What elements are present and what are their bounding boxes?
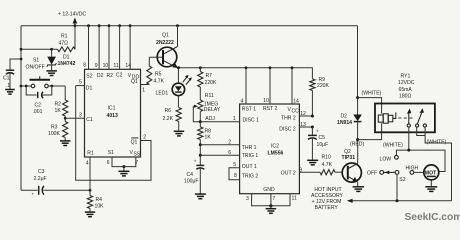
svg-text:CC: CC bbox=[292, 108, 300, 114]
ground (D1) bbox=[46, 71, 57, 76]
resistor R9 220K bbox=[310, 68, 330, 116]
svg-text:1N4742: 1N4742 bbox=[58, 61, 76, 67]
svg-text:C5: C5 bbox=[319, 135, 326, 141]
svg-text:THR 1: THR 1 bbox=[242, 145, 257, 151]
resistor R3 100K bbox=[48, 118, 68, 140]
svg-text:3: 3 bbox=[79, 112, 82, 118]
svg-text:HOT INPUT: HOT INPUT bbox=[314, 187, 341, 193]
svg-text:(WHITE): (WHITE) bbox=[383, 142, 403, 148]
wire: top +V rail bbox=[21, 25, 358, 27]
svg-text:R2: R2 bbox=[107, 73, 114, 79]
switch S2 LOW terminal bbox=[395, 155, 399, 159]
svg-text:47Ω: 47Ω bbox=[59, 41, 69, 47]
wires: IC1 top pin stubs 8,9,10,11,14 to +V rail bbox=[88, 26, 90, 70]
svg-text:Q1: Q1 bbox=[131, 79, 138, 85]
IC U2: IC2 LM556 timer box bbox=[240, 104, 300, 194]
relay linkage dashes bbox=[398, 117, 412, 119]
ground (IC2) bbox=[266, 209, 277, 214]
svg-text:D1: D1 bbox=[86, 85, 93, 91]
wire: OUT2 pin 9 bbox=[299, 171, 320, 173]
wire: IC1 pin 4 reset to C3/R4 node bbox=[89, 157, 91, 190]
IC2 left pin number labels bbox=[228, 116, 237, 179]
svg-text:LOW: LOW bbox=[380, 156, 392, 162]
svg-text:C2: C2 bbox=[116, 73, 123, 79]
svg-text:5: 5 bbox=[79, 80, 82, 86]
svg-text:6: 6 bbox=[107, 160, 110, 166]
wire: node to IC2 pin 6 TRIG1 bbox=[199, 145, 201, 156]
svg-text:OUT 1: OUT 1 bbox=[242, 164, 257, 170]
svg-text:SS: SS bbox=[134, 152, 141, 158]
svg-text:5: 5 bbox=[233, 162, 236, 168]
svg-text:(RED): (RED) bbox=[350, 142, 364, 148]
wire: battery hot rail with arrow bbox=[350, 200, 452, 202]
svg-text:TRIG 2: TRIG 2 bbox=[242, 173, 259, 179]
svg-text:GND: GND bbox=[263, 187, 275, 193]
svg-text:4.7K: 4.7K bbox=[154, 78, 165, 84]
wire: relay pole pin to LOW/motor node bbox=[408, 127, 410, 150]
resistor R8 1K bbox=[198, 122, 212, 145]
node label: HOT INPUT ACCESSORY +12V FROM BATTERY bbox=[311, 187, 343, 211]
svg-text:11: 11 bbox=[292, 195, 297, 201]
capacitor C2 .001 bbox=[25, 85, 28, 88]
wire: +V drop to D2 (WHITE) bbox=[357, 26, 359, 98]
switch S1 ON/OFF pushbutton bbox=[20, 85, 23, 88]
ground (C5) bbox=[307, 160, 318, 165]
svg-text:THR 2: THR 2 bbox=[281, 116, 296, 122]
svg-text:+ 12-14VDC: + 12-14VDC bbox=[58, 12, 86, 18]
svg-text:2: 2 bbox=[143, 135, 146, 141]
svg-text:OFF: OFF bbox=[367, 171, 377, 177]
svg-text:BATTERY: BATTERY bbox=[315, 205, 339, 211]
svg-text:Q1: Q1 bbox=[131, 139, 138, 145]
svg-text:S1: S1 bbox=[108, 150, 114, 156]
svg-text:1N914: 1N914 bbox=[337, 120, 352, 126]
switch S2 pole bbox=[395, 171, 399, 175]
svg-text:+: + bbox=[32, 192, 35, 197]
wire: Q1 emitter rail to R9 bbox=[178, 67, 311, 69]
svg-text:ACCESSORY: ACCESSORY bbox=[311, 193, 343, 199]
wire: R1 row bbox=[21, 26, 75, 50]
svg-text:4.7K: 4.7K bbox=[322, 162, 333, 168]
svg-text:1K: 1K bbox=[55, 108, 62, 114]
svg-text:(WHITE): (WHITE) bbox=[362, 91, 382, 97]
svg-text:ON/OFF: ON/OFF bbox=[26, 65, 45, 71]
svg-text:65mA: 65mA bbox=[399, 87, 413, 93]
capacitor C3 2.2uF bbox=[21, 169, 90, 196]
ground (motor) bbox=[425, 187, 437, 192]
IC1 internal labels bottom bbox=[87, 150, 141, 158]
wire: IC2 OUT1 pin5 to TRIG2 pin8 loop bbox=[229, 168, 240, 180]
svg-text:2.2K: 2.2K bbox=[163, 116, 174, 122]
wire: IC1 pin 1 Q1 output to R5 bbox=[141, 84, 150, 86]
svg-text:220K: 220K bbox=[317, 83, 329, 89]
svg-text:RST 2: RST 2 bbox=[263, 106, 278, 112]
ground (C4) bbox=[195, 194, 206, 199]
svg-text:OUT 2: OUT 2 bbox=[281, 171, 296, 177]
svg-text:1: 1 bbox=[142, 87, 145, 93]
svg-text:S1: S1 bbox=[33, 57, 39, 63]
svg-text:11: 11 bbox=[113, 63, 118, 69]
relay RY1 12VDC 65mA 180ohm box bbox=[375, 104, 435, 133]
svg-text:R2: R2 bbox=[55, 101, 62, 107]
svg-text:+: + bbox=[316, 129, 319, 134]
wires: IC2 top pin stubs 4,10,14 to emitter rail bbox=[245, 68, 247, 104]
svg-text:R7: R7 bbox=[206, 73, 213, 79]
capacitor C5 10uF bbox=[308, 127, 328, 160]
svg-text:8: 8 bbox=[234, 173, 237, 179]
svg-text:S2: S2 bbox=[86, 73, 92, 79]
svg-text:RST 1: RST 1 bbox=[242, 107, 257, 113]
svg-text:R1: R1 bbox=[87, 151, 94, 157]
diode D2 1N914 bbox=[337, 98, 362, 140]
zener diode D1 1N4742 bbox=[50, 48, 53, 51]
IC2 right pins 12,13 + C5 bbox=[299, 111, 306, 173]
svg-text:10: 10 bbox=[103, 63, 109, 69]
svg-text:10: 10 bbox=[263, 98, 269, 104]
resistor R10 4.7K bbox=[320, 154, 342, 175]
motor MOT bbox=[424, 165, 439, 187]
svg-text:R4: R4 bbox=[96, 197, 103, 203]
wire: left rail bbox=[20, 26, 22, 191]
svg-text:9: 9 bbox=[95, 63, 98, 69]
svg-text:HIGH: HIGH bbox=[406, 166, 419, 172]
svg-text:C1: C1 bbox=[3, 75, 10, 81]
svg-text:220K: 220K bbox=[205, 80, 217, 86]
ground (R4) bbox=[85, 212, 95, 217]
node: supply entry arrow +12-14VDC bbox=[58, 12, 86, 26]
svg-text:1K: 1K bbox=[205, 134, 212, 140]
resistor R5 4.7K bbox=[147, 66, 165, 85]
ground (C1) bbox=[5, 90, 15, 95]
svg-text:D1: D1 bbox=[63, 55, 70, 61]
svg-text:TRIG 1: TRIG 1 bbox=[242, 153, 259, 159]
relay coil bbox=[378, 112, 396, 123]
svg-text:+: + bbox=[194, 159, 197, 164]
svg-text:IC1: IC1 bbox=[108, 106, 116, 112]
IC2 internal labels bbox=[242, 106, 299, 193]
ground (IC1 pins 6,7) bbox=[118, 171, 129, 176]
transistor Q1 2N2222 bbox=[149, 26, 178, 68]
svg-text:14: 14 bbox=[293, 99, 299, 105]
pin labels IC1 top bbox=[83, 63, 131, 70]
svg-text:12VDC: 12VDC bbox=[398, 80, 415, 86]
svg-text:R1: R1 bbox=[61, 34, 68, 40]
junction dots on top rail bbox=[74, 24, 77, 27]
svg-text:DISC 2: DISC 2 bbox=[279, 127, 296, 133]
svg-text:C2: C2 bbox=[35, 102, 42, 108]
svg-text:RY1: RY1 bbox=[401, 74, 411, 80]
wire: relay coil feed bbox=[358, 98, 382, 114]
switch S2 OFF terminal + blade bbox=[380, 171, 384, 175]
svg-text:6: 6 bbox=[228, 150, 231, 156]
wire: clock node to IC1 pin 3 bbox=[64, 117, 67, 120]
svg-text:Q1: Q1 bbox=[162, 33, 169, 39]
wire: node to IC2 pin 2 THR1 bbox=[199, 143, 202, 146]
ground (R3) bbox=[60, 141, 71, 146]
relay contact terminals bbox=[407, 124, 410, 127]
svg-text:R10: R10 bbox=[322, 154, 332, 160]
svg-text:ADJ: ADJ bbox=[205, 116, 215, 122]
svg-text:R3: R3 bbox=[51, 124, 58, 130]
wire: node to IC2 pin 1 DISC1 bbox=[199, 120, 202, 123]
svg-text:14: 14 bbox=[125, 63, 131, 69]
svg-text:D2: D2 bbox=[97, 73, 104, 79]
resistor R4 10K bbox=[89, 189, 92, 192]
svg-text:MOT: MOT bbox=[425, 171, 437, 177]
wires: relay NO pins joined to battery riser bbox=[417, 127, 452, 201]
svg-text:LM556: LM556 bbox=[268, 151, 284, 157]
svg-text:(WHITE): (WHITE) bbox=[427, 139, 447, 145]
svg-text:D2: D2 bbox=[341, 113, 348, 119]
svg-text:C4: C4 bbox=[187, 172, 194, 178]
svg-text:2: 2 bbox=[228, 140, 231, 146]
svg-text:100K: 100K bbox=[48, 131, 60, 137]
svg-text:7: 7 bbox=[273, 196, 276, 202]
svg-text:.001: .001 bbox=[33, 109, 43, 115]
IC1 internal labels top bbox=[86, 73, 139, 81]
svg-text:2.2μF: 2.2μF bbox=[34, 176, 47, 182]
wire: IC1 pin 5 D1 input bbox=[76, 85, 85, 87]
svg-text:.1: .1 bbox=[6, 83, 10, 89]
svg-text:R5: R5 bbox=[155, 71, 162, 77]
resistor R2 1K bbox=[55, 86, 68, 118]
svg-text:IC2: IC2 bbox=[271, 144, 279, 150]
svg-text:+ 12V FROM: + 12V FROM bbox=[312, 199, 342, 205]
LED1 bbox=[156, 68, 192, 108]
svg-text:C3: C3 bbox=[38, 169, 45, 175]
svg-text:4: 4 bbox=[241, 98, 244, 104]
ground (Q2) bbox=[353, 187, 365, 192]
svg-text:R6: R6 bbox=[165, 108, 172, 114]
wire: IC1 pin 2 Q1-bar feedback to pin 5 bbox=[76, 86, 151, 181]
ground (R6) bbox=[174, 131, 185, 136]
svg-text:R9: R9 bbox=[319, 77, 326, 83]
capacitor C1 .1 bbox=[20, 58, 23, 61]
svg-text:2N2222: 2N2222 bbox=[156, 40, 174, 46]
svg-text:4013: 4013 bbox=[107, 113, 118, 119]
capacitor C4 100uF bbox=[184, 155, 204, 193]
svg-text:4: 4 bbox=[86, 160, 89, 166]
wires: IC2 bottom pins 3,7,11 ground loop bbox=[252, 194, 290, 206]
svg-text:DISC 1: DISC 1 bbox=[243, 117, 260, 123]
svg-text:8: 8 bbox=[83, 63, 86, 69]
svg-text:DELAY: DELAY bbox=[204, 107, 221, 113]
svg-text:R11: R11 bbox=[205, 93, 214, 99]
svg-text:10μF: 10μF bbox=[317, 142, 329, 148]
svg-text:S2: S2 bbox=[399, 177, 405, 183]
svg-text:100μF: 100μF bbox=[184, 179, 199, 185]
switch S2 HIGH terminal bbox=[410, 171, 414, 175]
op-amp/IC U1: IC1 4013 flip-flop box bbox=[85, 69, 141, 157]
transistor Q2 TIP31 bbox=[342, 140, 362, 187]
resistor R6 2.2K bbox=[163, 108, 182, 132]
svg-text:C1: C1 bbox=[86, 117, 93, 123]
svg-text:180Ω: 180Ω bbox=[399, 94, 411, 100]
svg-text:LED1: LED1 bbox=[156, 90, 169, 96]
relay contact blades bbox=[407, 108, 424, 124]
resistor R1 470ohm bbox=[58, 34, 76, 52]
svg-text:3: 3 bbox=[246, 196, 249, 202]
svg-text:TIP31: TIP31 bbox=[342, 155, 356, 161]
resistor R7 220K bbox=[198, 68, 217, 87]
svg-text:R8: R8 bbox=[205, 128, 212, 134]
svg-text:1: 1 bbox=[233, 116, 236, 122]
wire: pole node row to motor bbox=[396, 150, 445, 171]
wire: IC1 pins 6,7 to ground loop bbox=[112, 157, 136, 167]
svg-text:SeekIC.com: SeekIC.com bbox=[405, 212, 460, 223]
svg-text:10K: 10K bbox=[95, 204, 105, 210]
potentiometer R11 1MEG DELAY ADJ bbox=[193, 87, 220, 122]
